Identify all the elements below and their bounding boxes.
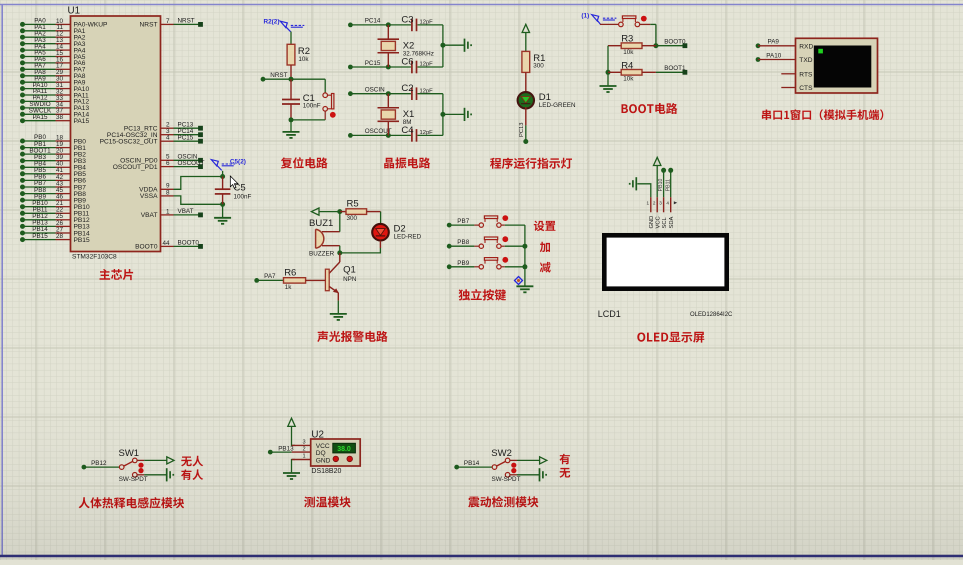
U1 pin OSCIN_PD0 (5) wire OSCIN <box>120 154 203 165</box>
wire OSCOUT row <box>350 133 443 138</box>
svg-text:C4: C4 <box>401 125 413 136</box>
capacitor C2 12pF <box>401 83 433 100</box>
label 主芯片 <box>100 269 134 280</box>
switch SW1 SW-SPDT <box>119 448 148 483</box>
label 设置 <box>534 221 556 232</box>
display LCD1 OLED12864I2C <box>598 233 733 319</box>
svg-text:PB11: PB11 <box>665 179 671 191</box>
U2 buttons <box>333 456 353 462</box>
svg-text:300: 300 <box>347 215 358 222</box>
U1 port B pin PB0 (18) wire PB0 <box>20 134 86 145</box>
wire VCC to R5 <box>319 209 342 214</box>
U1 port B pin PB14 (27) wire PB14 <box>20 226 90 237</box>
push button (BOOT) <box>619 16 647 27</box>
svg-text:6: 6 <box>166 160 170 167</box>
wire SCL to PB10 <box>658 168 666 197</box>
wire to boot button <box>600 23 619 25</box>
svg-text:12pF: 12pF <box>420 62 434 68</box>
svg-text:7: 7 <box>166 18 170 25</box>
wire D1 to PC13 terminal <box>519 107 529 144</box>
U1 port A pin PA13 (34) wire SWDIO <box>20 101 89 112</box>
U1 pin OSCOUT_PD1 (6) wire OSCOUT <box>113 160 205 171</box>
svg-text:R3: R3 <box>621 34 633 45</box>
U1 port A pin PA1 (11) wire PA1 <box>20 24 86 35</box>
U1 port B pin PB4 (40) wire PB4 <box>20 161 86 172</box>
buzzer BUZ1 <box>309 218 340 258</box>
push button (reset) <box>323 93 336 120</box>
wire VCC to U2 <box>292 426 296 445</box>
wire BOOT0 net <box>656 38 687 48</box>
svg-text:PB15: PB15 <box>74 237 90 244</box>
wire throw 1 (无人) <box>137 459 167 461</box>
U1 port B pin PB12 (25) wire PB12 <box>20 213 90 224</box>
U1 pin VBAT (1) wire VBAT <box>141 208 203 219</box>
U1 pin PC13_RTC (2) wire PC13 <box>124 121 203 132</box>
U1 port B pin PB13 (26) wire PB13 <box>20 220 90 231</box>
svg-text:C2: C2 <box>401 83 413 94</box>
node PB13 terminal <box>268 445 294 454</box>
wire PB12 to switch <box>84 466 120 468</box>
origin marker (blue diamond) <box>515 277 523 285</box>
resistor R5 300 <box>340 198 381 222</box>
label 独立按键 <box>459 289 507 301</box>
wire right rail (X2) <box>440 25 464 67</box>
wire BOOT1 net <box>656 65 687 75</box>
svg-text:VBAT: VBAT <box>178 208 194 215</box>
wire VCC pin <box>656 166 658 198</box>
wire VCC to buzzer top <box>339 212 341 232</box>
svg-text:GND: GND <box>649 216 655 229</box>
wire C5 to ground <box>222 204 224 217</box>
U1 port B pin PB15 (28) wire PB15 <box>20 233 90 244</box>
label 无人 <box>181 456 203 467</box>
LED D2 LED-RED <box>372 224 421 241</box>
U1 port A pin PA14 (37) wire SWCLK <box>20 108 89 119</box>
svg-text:U1: U1 <box>68 6 81 17</box>
svg-text:10k: 10k <box>298 56 309 63</box>
label 串口1窗口（模拟手机端） <box>762 109 883 120</box>
svg-text:10k: 10k <box>623 49 634 56</box>
wire VCC to R2 <box>290 32 292 45</box>
capacitor C3 12pF <box>401 14 433 31</box>
sheet border top <box>0 4 963 6</box>
shading <box>0 390 963 560</box>
wire throw 2 (无) <box>510 474 540 476</box>
microcontroller U1 STM32F103C8 body <box>68 6 161 261</box>
svg-text:PA15: PA15 <box>33 114 48 121</box>
ground (right of X2) <box>465 39 472 52</box>
svg-text:OSCOUT_PD1: OSCOUT_PD1 <box>113 164 158 171</box>
U1 pin VDDA (9) wire to C5 <box>139 177 222 194</box>
svg-text:12pF: 12pF <box>420 20 434 26</box>
power arrow (alarm) <box>311 208 319 215</box>
wire emitter to ground <box>337 293 339 314</box>
label BOOT电路 <box>622 103 678 114</box>
capacitor C5 100nF <box>215 177 252 205</box>
svg-text:BOOT0: BOOT0 <box>178 240 200 247</box>
U1 pin BOOT0 (44) wire BOOT0 <box>135 240 203 251</box>
wire NRST to button <box>324 79 326 92</box>
wire C1/button bottom <box>289 117 326 131</box>
wire D2 to collector node <box>337 241 380 256</box>
node NRST wire <box>261 72 326 82</box>
power arrow (U2 VCC) <box>288 418 295 426</box>
wire PB14 to switch <box>457 466 493 468</box>
svg-text:PA9: PA9 <box>768 39 780 46</box>
power arrow (有) <box>540 457 547 464</box>
wire R5 to D2 <box>380 212 382 225</box>
U1 port A pin PA0-WKUP (10) wire PA0 <box>20 18 108 29</box>
transistor Q1 NPN <box>325 253 356 293</box>
ground (U2) <box>283 473 300 479</box>
wire SDA to PB11 <box>665 168 673 197</box>
svg-text:C5(2): C5(2) <box>230 159 246 166</box>
U1 pin VSSA (8) wire to C5 <box>140 189 223 204</box>
svg-text:100nF: 100nF <box>303 103 321 110</box>
U1 port A pin PA2 (12) wire PA2 <box>20 30 86 41</box>
wire VCC to R1 <box>525 33 527 52</box>
capacitor C4 12pF <box>401 125 433 142</box>
push button (PB7) <box>449 215 525 227</box>
pin RTS stub <box>781 73 795 75</box>
U1 port B pin PB10 (21) wire PB10 <box>20 200 90 211</box>
wire throw 2 (有人) <box>137 474 167 476</box>
svg-text:PB15: PB15 <box>32 233 48 240</box>
label 有 <box>560 454 570 465</box>
svg-text:VSSA: VSSA <box>140 193 158 200</box>
push button (PB8) <box>449 236 525 248</box>
OLED pin names <box>649 216 675 229</box>
U1 port A pin PA9 (30) wire PA9 <box>20 75 86 86</box>
svg-text:OSCIN: OSCIN <box>365 87 385 94</box>
wire PA9 to RXD <box>756 39 796 49</box>
svg-text:LCD1: LCD1 <box>598 309 621 319</box>
svg-text:PB10: PB10 <box>658 178 664 191</box>
label OLED显示屏 <box>637 332 704 343</box>
svg-text:32.768KHz: 32.768KHz <box>403 50 434 57</box>
node PA7 terminal <box>254 273 276 283</box>
capacitor C1 100nF <box>282 79 321 120</box>
wire PA7 to R6 <box>257 279 284 281</box>
wire button to BOOT0 rail <box>640 24 659 48</box>
wire buzzer bottom to collector node <box>339 246 341 253</box>
U1 port A pin PA12 (33) wire PA12 <box>20 95 89 106</box>
svg-text:C6: C6 <box>401 56 413 67</box>
U1 port B pin PB1 (19) wire PB1 <box>20 141 86 152</box>
U1 port B pin PB3 (39) wire PB3 <box>20 154 86 165</box>
svg-text:44: 44 <box>162 240 170 247</box>
svg-text:10k: 10k <box>623 76 634 83</box>
U1 port B pin PB6 (42) wire PB6 <box>20 174 86 185</box>
svg-text:12pF: 12pF <box>420 130 434 136</box>
U1 port A pin PA11 (32) wire PA11 <box>20 88 89 99</box>
U1 port B pin PB11 (22) wire PB11 <box>20 207 89 218</box>
U1 port A pin PA6 (16) wire PA6 <box>20 56 86 67</box>
ground (right of X1) <box>465 108 472 121</box>
U1 pin PC15-OSC32_OUT (4) wire PC15 <box>100 134 203 145</box>
svg-text:Q1: Q1 <box>343 264 356 275</box>
label 无 <box>560 468 571 478</box>
svg-text:PC15-OSC32_OUT: PC15-OSC32_OUT <box>100 139 158 146</box>
svg-text:300: 300 <box>533 63 544 70</box>
wire PC15 row <box>350 65 443 70</box>
svg-text:R2(2): R2(2) <box>264 19 280 26</box>
svg-text:(1): (1) <box>581 13 589 20</box>
svg-text:SCL: SCL <box>662 216 668 228</box>
svg-text:38: 38 <box>56 114 64 121</box>
U1 port B pin PB7 (43) wire PB7 <box>20 180 86 191</box>
svg-text:BOOT0: BOOT0 <box>135 244 158 251</box>
svg-text:PA15: PA15 <box>74 118 90 125</box>
svg-text:12pF: 12pF <box>420 88 434 94</box>
wire left rail (BOOT) <box>606 46 611 86</box>
U1 port B pin PB2 (20) wire BOOT1 <box>20 147 86 158</box>
node PC14 terminal <box>348 18 381 28</box>
wire GND to ground <box>292 460 296 473</box>
svg-text:R5: R5 <box>347 198 359 209</box>
svg-text:VBAT: VBAT <box>141 212 158 219</box>
svg-text:R4: R4 <box>621 60 633 71</box>
svg-text:3: 3 <box>659 201 662 206</box>
node PB8 terminal <box>447 239 470 248</box>
node OSCOUT terminal <box>348 128 392 138</box>
label 复位电路 <box>281 157 328 168</box>
wire PA10 to TXD <box>756 52 796 62</box>
svg-text:OLED12864I2C: OLED12864I2C <box>690 312 733 318</box>
U1 port A pin PA8 (29) wire PA8 <box>20 69 86 80</box>
capacitor C6 12pF <box>401 56 433 73</box>
svg-text:4: 4 <box>666 201 669 206</box>
U1 port A pin PA10 (31) wire PA10 <box>20 82 89 93</box>
svg-text:NRST: NRST <box>270 72 287 79</box>
terminal screen <box>814 46 872 88</box>
sheet border left <box>1 5 3 557</box>
svg-text:PC14: PC14 <box>365 18 381 25</box>
wire PC14 row <box>350 22 443 27</box>
U1 pin NRST (7) wire NRST <box>140 18 203 29</box>
LED D1 LED-GREEN <box>518 92 576 109</box>
node PB12 terminal <box>82 460 108 469</box>
svg-text:PB7: PB7 <box>457 218 469 225</box>
svg-text:RTS: RTS <box>799 71 813 78</box>
power arrow (OLED VCC) <box>654 157 661 165</box>
svg-text:RXD: RXD <box>799 43 813 50</box>
blue hint label C5(2) <box>211 159 246 171</box>
node PB9 terminal <box>447 260 470 269</box>
resistor R6 1k <box>284 268 326 291</box>
node PB7 terminal <box>447 218 470 227</box>
crystal X2 32.768KHz <box>378 25 434 67</box>
ground (有人, sideways) <box>167 468 174 481</box>
push button (PB9) <box>449 257 525 269</box>
U1 port B pin PB5 (41) wire PB5 <box>20 167 86 178</box>
svg-text:8: 8 <box>166 189 170 196</box>
U1 port A pin PA5 (15) wire PA5 <box>20 50 86 61</box>
svg-text:LED-RED: LED-RED <box>394 233 422 240</box>
svg-text:NRST: NRST <box>178 18 195 25</box>
svg-text:PC13: PC13 <box>519 122 525 137</box>
wire right rail (X1) <box>440 94 464 136</box>
label 程序运行指示灯 <box>490 158 572 169</box>
ground below C5 <box>214 218 231 224</box>
label 晶振电路 <box>384 157 430 168</box>
resistor R2 10k <box>287 44 310 79</box>
power arrow (无人) <box>167 457 174 464</box>
ground (reset) <box>283 132 300 138</box>
svg-text:SDA: SDA <box>669 216 675 228</box>
U1 port B pin PB8 (45) wire PB8 <box>20 187 86 198</box>
svg-text:1: 1 <box>647 201 650 206</box>
svg-text:BUZZER: BUZZER <box>309 251 335 258</box>
virtual terminal body <box>796 38 878 93</box>
blue hint label R2(2) <box>264 19 305 32</box>
U1 port A pin PA4 (14) wire PA4 <box>20 43 86 54</box>
label 测温模块 <box>304 496 351 507</box>
U1 pin PC14-OSC32_IN (3) wire PC14 <box>107 128 203 139</box>
svg-text:PB8: PB8 <box>457 239 469 246</box>
ground (无, sideways) <box>540 468 547 481</box>
node PC15 terminal <box>348 60 381 70</box>
svg-text:PA7: PA7 <box>264 273 276 280</box>
svg-text:BOOT0: BOOT0 <box>664 38 686 45</box>
svg-text:4: 4 <box>166 135 170 142</box>
svg-text:CTS: CTS <box>799 85 813 92</box>
power arrow (indicator) <box>522 24 529 32</box>
wire throw 1 (有) <box>510 459 540 461</box>
svg-text:NRST: NRST <box>140 22 158 29</box>
svg-text:PB9: PB9 <box>457 260 469 267</box>
wire GND pin to ground <box>637 184 651 197</box>
ground (BOOT) <box>600 86 617 92</box>
svg-text:NPN: NPN <box>343 276 357 283</box>
svg-text:PC15: PC15 <box>365 60 381 67</box>
svg-text:100nF: 100nF <box>234 194 252 201</box>
label 声光报警电路 <box>317 331 387 342</box>
svg-text:OSCOUT: OSCOUT <box>178 160 205 167</box>
switch SW2 SW-SPDT <box>491 448 520 483</box>
U1 port A pin PA15 (38) wire PA15 <box>20 114 89 125</box>
svg-text:C3: C3 <box>401 14 413 25</box>
svg-text:TXD: TXD <box>799 57 812 64</box>
node VSSA-C5 junction <box>220 202 225 207</box>
resistor R4 10k <box>608 60 656 82</box>
temperature sensor U2 DS18B20 <box>292 429 361 475</box>
svg-text:1k: 1k <box>285 284 293 291</box>
crystal X1 8M <box>378 94 415 136</box>
blue hint label (1) <box>581 13 616 25</box>
svg-text:STM32F103C8: STM32F103C8 <box>72 253 117 260</box>
ground (OLED, sideways) <box>630 177 637 190</box>
resistor R1 300 <box>522 51 546 91</box>
svg-text:2: 2 <box>653 201 656 206</box>
node PB14 terminal <box>454 460 480 469</box>
svg-text:BUZ1: BUZ1 <box>309 218 333 229</box>
svg-text:BOOT1: BOOT1 <box>664 65 686 72</box>
ground (keys) <box>516 286 533 292</box>
svg-text:LED-GREEN: LED-GREEN <box>539 102 576 109</box>
U1 port B pin PB9 (46) wire PB9 <box>20 193 86 204</box>
svg-text:VCC: VCC <box>656 216 662 228</box>
node OSCIN terminal <box>348 87 385 97</box>
label 人体热释电感应模块 <box>79 497 185 508</box>
resistor R3 10k <box>608 34 656 56</box>
svg-text:1: 1 <box>166 208 170 215</box>
wire PB13 to DQ <box>270 451 291 453</box>
svg-text:PC15: PC15 <box>178 134 194 141</box>
wire OSCIN row <box>350 91 443 96</box>
ground (alarm) <box>330 314 347 320</box>
svg-text:28: 28 <box>56 233 64 240</box>
node VDDA-C5 junction <box>220 171 225 179</box>
OLED pin stubs <box>647 197 678 212</box>
label 震动检测模块 <box>468 496 538 507</box>
label 有人 <box>181 469 203 480</box>
wire key rail to ground <box>522 225 527 286</box>
pin CTS stub <box>781 87 795 89</box>
label 减 <box>540 262 551 273</box>
U1 port A pin PA3 (13) wire PA3 <box>20 37 86 48</box>
svg-text:PA10: PA10 <box>766 52 781 59</box>
sheet border bottom <box>0 555 963 557</box>
label 加 <box>540 242 550 252</box>
svg-text:R6: R6 <box>284 268 296 279</box>
svg-text:8M: 8M <box>403 119 412 126</box>
U2 LCD readout 38.0 <box>333 443 356 453</box>
U1 port A pin PA7 (17) wire PA7 <box>20 63 86 74</box>
mouse cursor <box>230 176 238 188</box>
